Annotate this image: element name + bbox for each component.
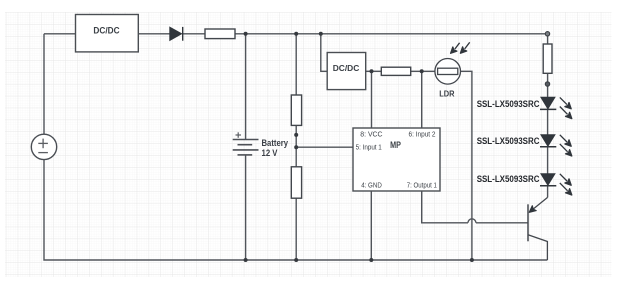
svg-text:LDR: LDR [439, 89, 454, 99]
svg-text:5: Input 1: 5: Input 1 [356, 145, 382, 152]
svg-text:DC/DC: DC/DC [93, 25, 120, 35]
svg-text:4: GND: 4: GND [361, 183, 382, 190]
svg-text:DC/DC: DC/DC [333, 63, 360, 73]
svg-text:Battery: Battery [262, 138, 289, 148]
svg-text:6: Input 2: 6: Input 2 [409, 132, 436, 139]
svg-text:12 V: 12 V [262, 148, 278, 158]
svg-text:8: VCC: 8: VCC [360, 132, 382, 139]
svg-text:SSL-LX5093SRC: SSL-LX5093SRC [477, 99, 540, 109]
svg-text:SSL-LX5093SRC: SSL-LX5093SRC [477, 174, 540, 184]
svg-text:SSL-LX5093SRC: SSL-LX5093SRC [477, 136, 540, 146]
svg-text:7: Output 1: 7: Output 1 [407, 183, 437, 190]
svg-text:MP: MP [390, 140, 401, 150]
